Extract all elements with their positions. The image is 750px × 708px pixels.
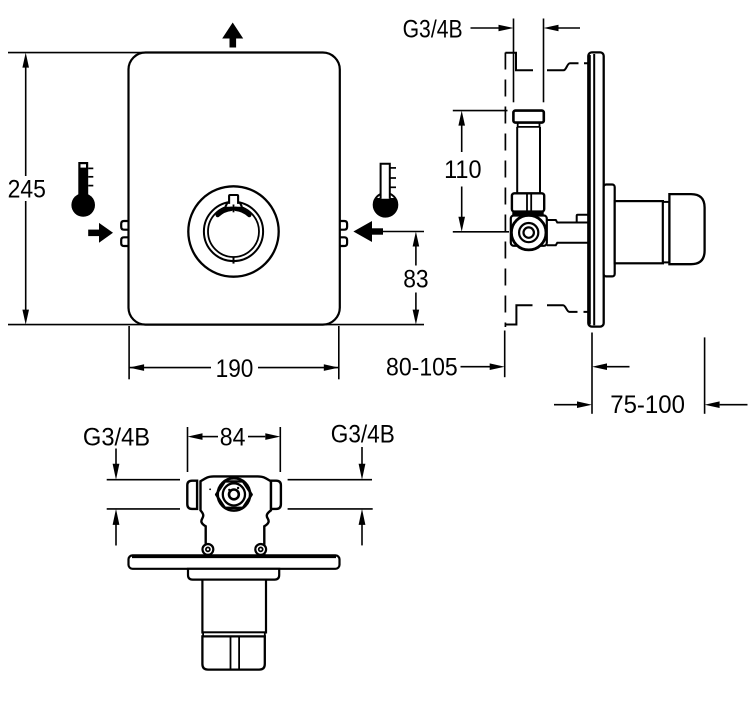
knob bottom marker: [233, 257, 235, 263]
knob top tab: [225, 195, 242, 207]
wall section bottom edge: [505, 305, 590, 324]
knob grip arc: [218, 209, 232, 215]
left port extension lines: [107, 479, 180, 481]
knob front extension: [704, 337, 706, 413]
svg-text:110: 110: [444, 156, 481, 184]
riser pipe body: [516, 127, 518, 193]
knob ring outer: [204, 202, 263, 261]
knob stem side view: [615, 201, 663, 263]
wall face dashed line: [504, 53, 506, 328]
right port extension lines: [288, 479, 372, 481]
svg-text:G3/4B: G3/4B: [331, 421, 395, 449]
hot water thermometer: [71, 162, 95, 217]
inlet wing left: [187, 481, 197, 509]
left mounting clip: [121, 221, 128, 230]
svg-text:80-105: 80-105: [386, 354, 458, 382]
arm to plate: [547, 220, 589, 245]
svg-text:G3/4B: G3/4B: [83, 424, 150, 452]
cover plate front view: [129, 53, 340, 325]
control knob outer circle: [188, 186, 278, 276]
elbow port outer: [511, 215, 546, 250]
slab thick top edge: [132, 555, 336, 558]
mounting flange bottom view: [188, 569, 279, 580]
svg-text:75-100: 75-100: [610, 391, 685, 419]
hex nut bottom view: [216, 481, 252, 507]
screw right: [255, 544, 266, 555]
riser pipe cap: [513, 111, 543, 123]
dimension G3/4B top: [403, 16, 580, 44]
knob ring inner: [208, 206, 259, 257]
svg-text:84: 84: [220, 424, 246, 452]
svg-text:245: 245: [8, 175, 46, 203]
cartridge circle: [223, 483, 245, 505]
valve body bottom view: [201, 476, 271, 555]
knob end cap side view: [669, 194, 704, 264]
hot water flow arrow: [88, 223, 113, 243]
knob center tick: [233, 205, 235, 213]
end nut: [202, 636, 264, 669]
dimension 83: [403, 232, 428, 325]
dimension 75-100: [554, 391, 748, 419]
right port arrows: [359, 447, 366, 545]
plate back extension: [591, 333, 593, 414]
right mounting clip: [340, 221, 347, 230]
detail dots: [228, 489, 230, 491]
leader line to 83 dimension: [383, 231, 425, 233]
dimension 84: [188, 424, 281, 472]
sleeve ring: [203, 632, 265, 636]
wall section top edge: [505, 53, 589, 71]
dimension 190: [129, 326, 339, 383]
svg-text:G3/4B: G3/4B: [403, 16, 463, 44]
port face circle: [218, 478, 250, 510]
dimension 110: [444, 111, 509, 232]
svg-text:83: 83: [403, 266, 428, 294]
outlet flow arrow (up): [222, 23, 243, 39]
elbow body: [511, 216, 547, 246]
valve sleeve: [202, 580, 266, 633]
cold water thermometer: [374, 164, 398, 217]
bottom extension line: [8, 324, 424, 326]
cold water flow arrow: [353, 221, 383, 242]
elbow port inner: [524, 227, 534, 237]
elbow port middle: [519, 223, 538, 242]
knob flange side view: [604, 185, 615, 277]
cover plate bottom view slab: [129, 555, 340, 568]
union hex nut: [512, 193, 544, 211]
spindle circle: [229, 490, 239, 500]
svg-text:190: 190: [216, 355, 254, 383]
washer band: [512, 211, 543, 216]
G3/4B extension lines: [513, 19, 515, 103]
dimension 245: [8, 53, 46, 325]
mounting boss: [577, 215, 589, 223]
wall line extension: [504, 331, 506, 378]
knob groove: [663, 202, 670, 263]
cover plate side view: [588, 52, 603, 326]
screw left: [203, 544, 214, 555]
top extension line: [8, 52, 152, 54]
riser pipe neck: [518, 123, 540, 127]
plate inner face line: [593, 54, 595, 325]
left port arrows: [113, 449, 120, 546]
plate back thick edge: [589, 55, 591, 325]
inlet wing right: [271, 481, 281, 509]
dimension 80-105: [386, 354, 629, 382]
nut facet lines: [230, 638, 232, 669]
